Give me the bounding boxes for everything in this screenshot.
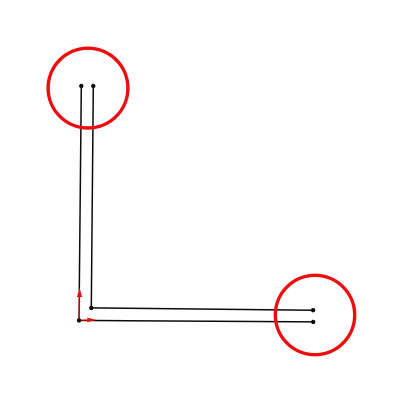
wire inner horizontal segment <box>91 308 313 310</box>
highlight circle around end dots <box>275 275 354 354</box>
arrow horizontal direction vector <box>79 318 96 323</box>
wire inner vertical segment <box>91 86 93 308</box>
arrow vertical direction vector <box>77 288 82 321</box>
node inner path end (upper right dot) <box>311 308 315 312</box>
node outer path end (lower right dot) <box>311 320 315 324</box>
node outer path start (top-left dot) <box>79 84 83 88</box>
wire outer vertical segment <box>79 86 81 320</box>
wire outer horizontal segment <box>79 320 313 322</box>
node inner path start (top dot) <box>91 84 95 88</box>
node inner corner junction <box>89 306 93 310</box>
node outer corner junction <box>77 318 81 322</box>
highlight circle around start dots <box>48 48 128 128</box>
